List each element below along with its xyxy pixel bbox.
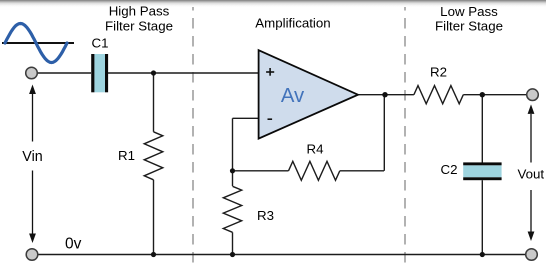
svg-text:Vout: Vout (518, 167, 545, 182)
svg-text:Low Pass: Low Pass (440, 4, 498, 19)
svg-text:Vin: Vin (22, 149, 42, 165)
svg-text:High Pass: High Pass (109, 4, 170, 19)
svg-text:R4: R4 (307, 142, 324, 157)
svg-text:Filter Stage: Filter Stage (105, 18, 173, 33)
svg-text:C2: C2 (441, 162, 458, 177)
svg-text:0v: 0v (65, 235, 82, 252)
svg-text:C1: C1 (92, 36, 109, 51)
svg-text:R1: R1 (118, 148, 135, 163)
svg-text:Filter Stage: Filter Stage (435, 19, 503, 34)
svg-text:Amplification: Amplification (255, 15, 330, 30)
svg-text:Av: Av (281, 85, 305, 107)
svg-text:R3: R3 (257, 208, 274, 223)
svg-text:R2: R2 (430, 65, 447, 80)
